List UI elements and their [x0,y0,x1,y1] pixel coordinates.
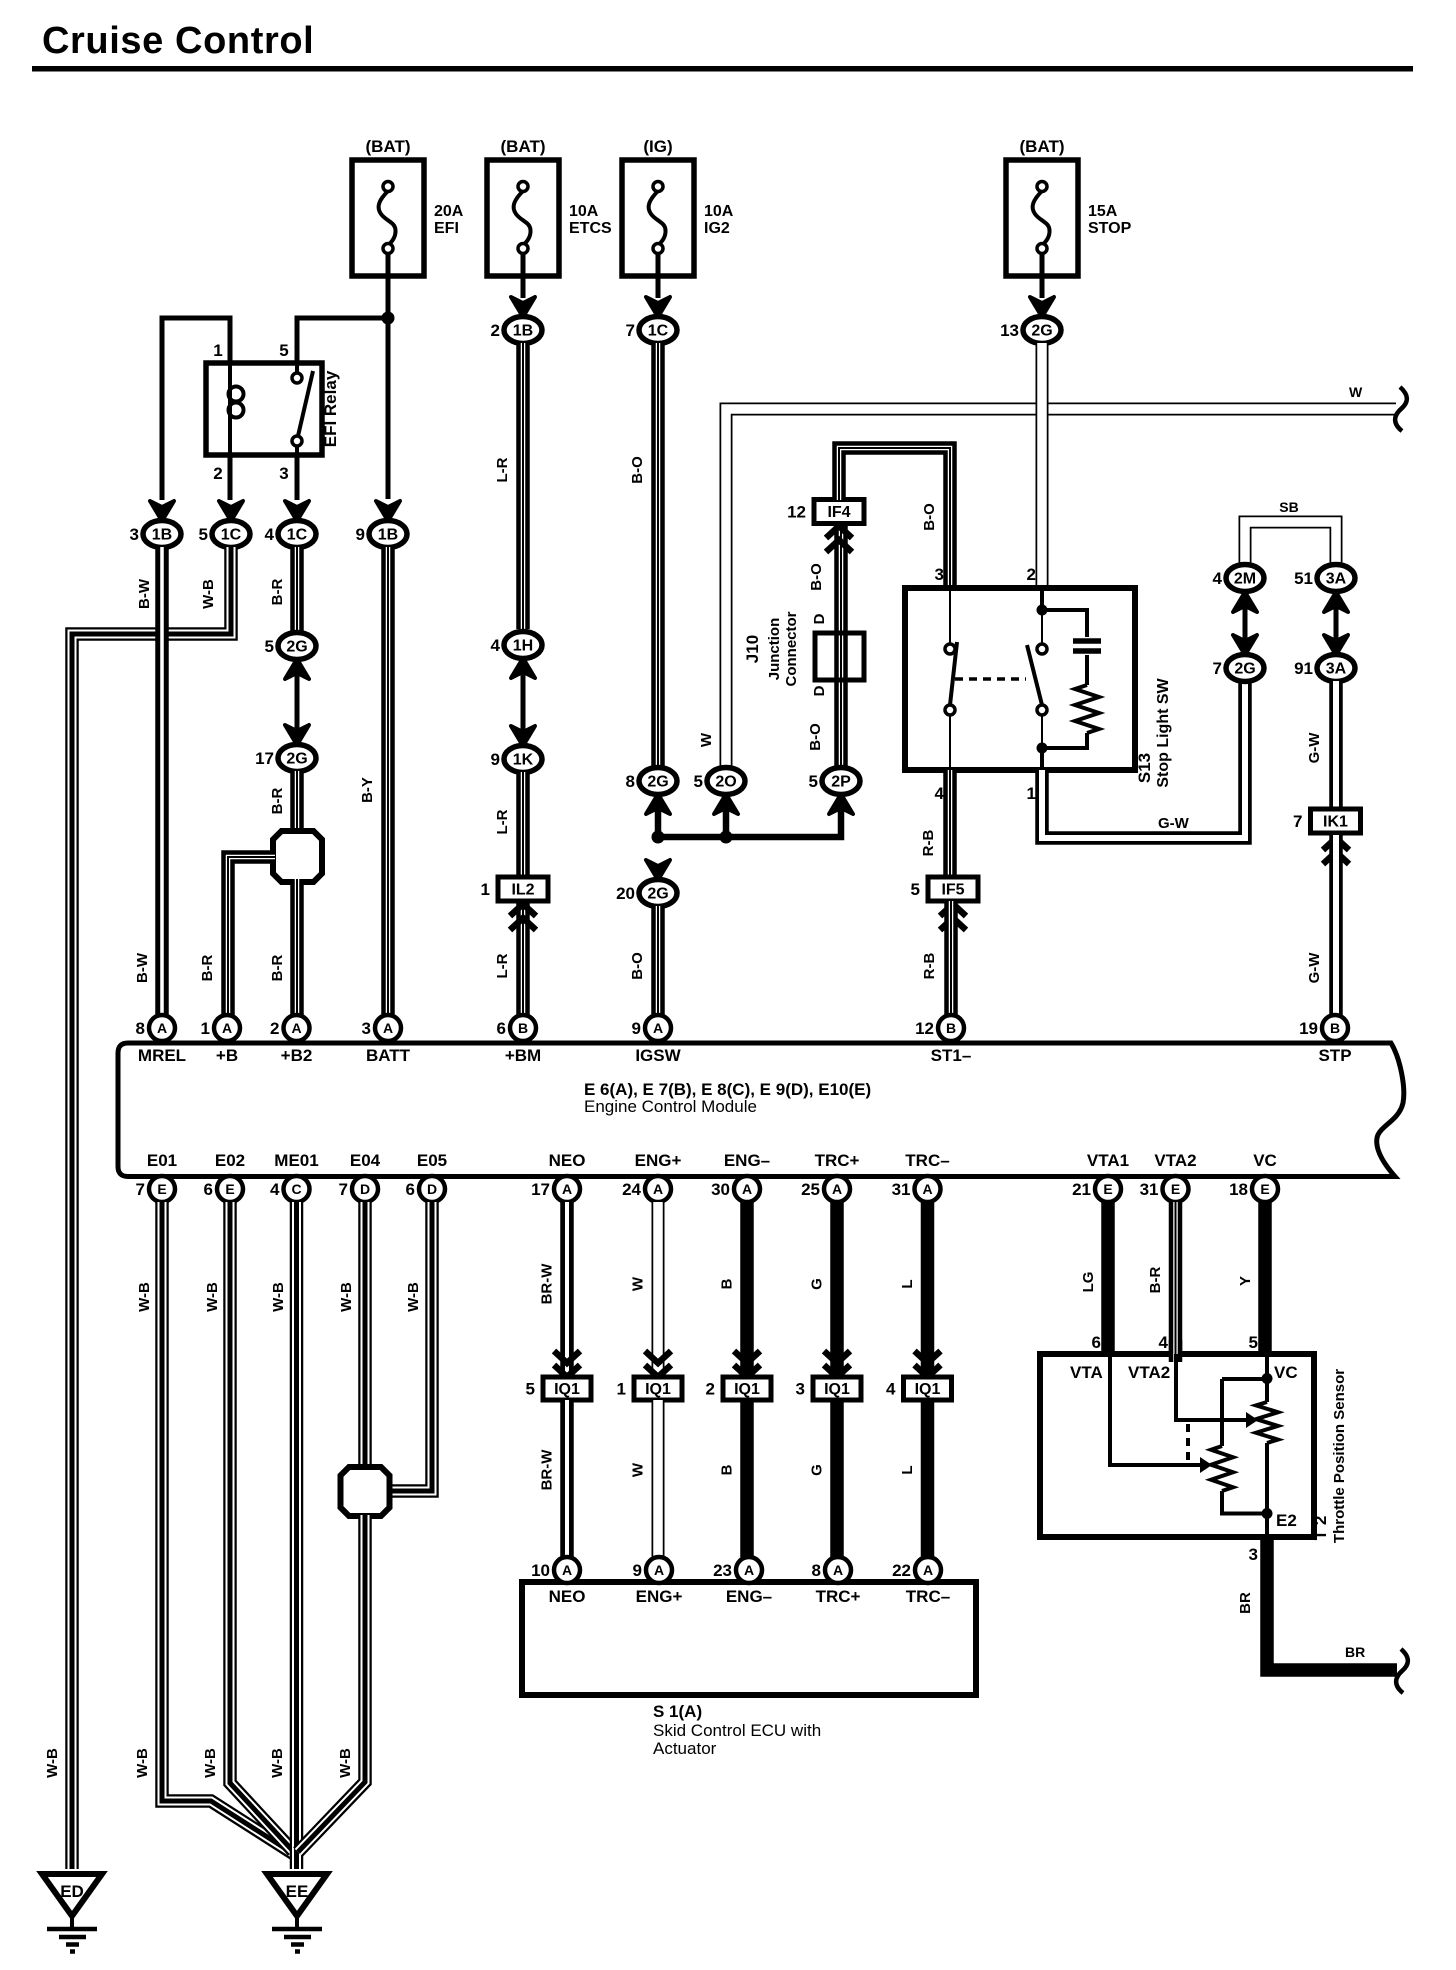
junction EFI rail [382,312,395,325]
connector IQ1 [904,1377,952,1400]
ECM pin 1 +B [214,1015,240,1041]
Skid ECU pin 23 ENG&#8211; [736,1557,762,1583]
connector IQ1 [723,1377,771,1400]
ground EE [267,1874,327,1916]
arrow into 8(2G) [646,794,670,814]
ECM pin 12 ST1&#8211; [938,1015,964,1041]
svg-text:13: 13 [1000,321,1019,340]
wire W-B E05 to octagon [390,1202,432,1491]
svg-text:D: D [360,1181,370,1197]
connector IF4 [814,500,864,524]
capacitor in S13 [1042,610,1087,637]
svg-text:G-W: G-W [1306,952,1323,984]
arrow into 5(2G) [285,659,309,679]
svg-text:6: 6 [497,1019,506,1038]
svg-text:5: 5 [809,772,818,791]
svg-text:D: D [427,1181,437,1197]
svg-text:G: G [809,1464,826,1476]
svg-text:31: 31 [1140,1180,1159,1199]
wire R-B IF5 to ST1- [944,901,958,1015]
arrow into 5(1C) [219,501,243,521]
wire L upper [921,1202,935,1374]
svg-text:1C: 1C [287,527,308,544]
svg-text:VC: VC [1253,1151,1277,1170]
connector 7(2G) [1226,655,1264,682]
connector 7(1C) [639,317,677,344]
connector 4(1H) [504,632,542,659]
ECM pin 9 IGSW [645,1015,671,1041]
svg-text:1B: 1B [513,323,533,340]
svg-text:T 2: T 2 [1311,1516,1330,1541]
ECM pin 18 VC [1252,1176,1278,1202]
svg-text:1C: 1C [648,323,669,340]
svg-text:Actuator: Actuator [653,1739,717,1758]
Skid ECU pin 22 TRC&#8211; [915,1557,941,1583]
svg-text:VTA2: VTA2 [1128,1363,1170,1382]
wiper VTA2 [1176,1354,1246,1420]
svg-text:5: 5 [279,341,288,360]
svg-text:5: 5 [526,1380,535,1399]
fuse 20A EFI [352,160,424,276]
svg-text:S 1(A): S 1(A) [653,1702,702,1721]
svg-text:TRC–: TRC– [905,1151,949,1170]
svg-text:A: A [742,1181,752,1197]
ECM pin 3 BATT [375,1015,401,1041]
svg-text:E: E [1260,1181,1269,1197]
ECM pin 2 +B2 [284,1015,310,1041]
svg-text:D: D [811,613,828,624]
wire B lower [740,1400,754,1557]
Skid ECU pin 10 NEO [554,1557,580,1583]
svg-text:7: 7 [1293,812,1302,831]
svg-text:5: 5 [265,637,274,656]
connector 2(1B) [504,317,542,344]
svg-text:2: 2 [491,321,500,340]
break squiggle W [1395,387,1407,431]
wire L-R 2(1B) to 4(1H) [516,343,530,629]
wire W-B E01 to EE [162,1202,294,1854]
svg-text:W-B: W-B [134,1748,151,1778]
svg-text:4: 4 [265,525,275,544]
svg-text:EE: EE [286,1882,309,1901]
arrow into 4(1H) [511,658,535,678]
wire SB bridge [1245,522,1336,568]
chevrons into IQ1 [734,1351,760,1377]
wire W upper [652,1202,665,1374]
svg-text:2: 2 [706,1380,715,1399]
wire W 13(2G) to S13 pin2 [1036,343,1049,600]
svg-text:A: A [833,1562,843,1578]
svg-text:B-O: B-O [807,723,824,751]
svg-text:B-R: B-R [269,955,286,982]
arrow into 4(1C) [285,501,309,521]
svg-text:A: A [654,1562,664,1578]
svg-text:IQ1: IQ1 [645,1381,671,1398]
ECM pin 4 ME01 [284,1176,310,1202]
svg-text:9: 9 [491,750,500,769]
svg-text:3: 3 [1249,1545,1258,1564]
wire L-R 9(1K) to IL2 [516,772,530,877]
svg-text:IL2: IL2 [511,882,534,899]
svg-text:6: 6 [204,1180,213,1199]
ECM pin 31 TRC&#8211; [915,1176,941,1202]
svg-text:1K: 1K [513,752,534,769]
svg-text:2G: 2G [1234,661,1255,678]
connector 5(2P) [822,768,860,795]
svg-text:+B2: +B2 [281,1046,313,1065]
svg-text:7: 7 [1213,659,1222,678]
connector 51(3A) [1317,565,1355,592]
wire B-R crossing TPS edge [1169,1340,1183,1362]
wire W lower [652,1400,665,1557]
svg-text:C: C [291,1181,301,1197]
svg-text:EFI: EFI [434,220,459,237]
svg-text:W-B: W-B [44,1748,61,1778]
svg-text:ST1–: ST1– [931,1046,972,1065]
arrow into 3(1B) [150,501,174,521]
svg-text:3A: 3A [1326,571,1347,588]
wire G upper [830,1202,844,1374]
svg-text:1: 1 [617,1380,626,1399]
svg-text:Y: Y [1237,1276,1254,1286]
chevrons into IQ1 [824,1351,850,1377]
svg-text:22: 22 [892,1561,911,1580]
svg-text:4: 4 [935,784,945,803]
svg-text:3: 3 [130,525,139,544]
ECM pin 19 STP [1322,1015,1348,1041]
wire B-O 7(1C) to 8(2G) [651,343,665,768]
svg-text:20: 20 [616,884,635,903]
arrow into 91(3A) [1324,635,1348,655]
svg-text:1C: 1C [221,527,242,544]
ECU S1(A) Skid Control ECU with Actuator [522,1582,976,1695]
connector 5(2G) [278,633,316,660]
svg-text:W: W [630,1276,647,1291]
svg-text:21: 21 [1072,1180,1091,1199]
svg-text:B: B [719,1278,736,1289]
svg-text:23: 23 [713,1561,732,1580]
svg-text:TRC–: TRC– [906,1587,950,1606]
svg-text:ENG–: ENG– [724,1151,770,1170]
wire Y VC [1258,1202,1272,1358]
svg-text:L: L [899,1465,916,1474]
wire W-B E02 to EE [230,1202,293,1851]
ECM pin 31 VTA2 [1163,1176,1189,1202]
svg-text:W-B: W-B [136,1282,153,1312]
fuse 10A ETCS [487,160,559,276]
svg-text:1B: 1B [378,527,398,544]
switch S13 Stop Light SW [905,588,1135,770]
svg-text:E: E [1171,1181,1180,1197]
ECM pin 7 E04 [352,1176,378,1202]
svg-text:ME01: ME01 [274,1151,318,1170]
svg-text:B: B [719,1464,736,1475]
Skid ECU pin 8 TRC+ [825,1557,851,1583]
connector IL2 [498,877,548,901]
svg-text:12: 12 [915,1019,934,1038]
svg-text:B: B [518,1020,528,1036]
svg-text:ETCS: ETCS [569,220,612,237]
svg-text:20A: 20A [434,203,464,220]
ECM pin 25 TRC+ [824,1176,850,1202]
wire junction to 5(2O) [723,794,730,837]
svg-text:17: 17 [255,749,274,768]
svg-text:EFI Relay: EFI Relay [321,370,340,447]
svg-text:9: 9 [632,1019,641,1038]
junction dots [652,831,665,844]
svg-text:E05: E05 [417,1151,447,1170]
wire between 51(3A) and 91(3A) [1334,600,1339,650]
wire B-O 5(2P) to IF4 via J10 [834,523,848,768]
svg-text:30: 30 [711,1180,730,1199]
svg-text:B-W: B-W [134,952,151,983]
svg-text:NEO: NEO [549,1151,586,1170]
svg-text:E01: E01 [147,1151,177,1170]
svg-text:10A: 10A [704,203,734,220]
svg-text:ENG+: ENG+ [635,1151,682,1170]
svg-text:2G: 2G [286,639,307,656]
connector 3(1B) [143,521,181,548]
ECM pin 30 ENG&#8211; [734,1176,760,1202]
connector 9(1B) [369,521,407,548]
svg-text:W-B: W-B [270,1282,287,1312]
svg-text:E04: E04 [350,1151,381,1170]
wire junction to 5(2P) [658,794,841,837]
svg-text:Engine Control Module: Engine Control Module [584,1097,757,1116]
svg-text:2: 2 [1027,565,1036,584]
svg-text:8: 8 [626,772,635,791]
svg-text:W-B: W-B [338,1282,355,1312]
junction connector J10 [815,633,864,680]
connector 17(2G) [278,745,316,772]
wire LG VTA1 [1101,1202,1115,1358]
svg-text:SB: SB [1279,499,1298,515]
svg-text:B-W: B-W [136,578,153,609]
svg-text:4: 4 [270,1180,280,1199]
svg-text:2O: 2O [715,774,736,791]
arrow into 9(1B) [376,501,400,521]
svg-text:G: G [809,1278,826,1290]
svg-text:91: 91 [1294,659,1313,678]
wire W-B E04 to octagon [358,1202,372,1467]
svg-text:A: A [222,1020,232,1036]
wire G-W IK1 to STP [1329,835,1343,1015]
chevrons into IQ1 [915,1351,941,1377]
svg-text:E2: E2 [1276,1511,1297,1530]
svg-text:VTA1: VTA1 [1087,1151,1129,1170]
svg-text:A: A [832,1181,842,1197]
wire EFI fuse to 1B and relay rail [386,253,391,499]
wire between 1H and 1K [521,658,526,746]
svg-text:4: 4 [491,636,501,655]
svg-text:B-R: B-R [269,579,286,606]
wire between 5(2G) and 17(2G) [295,659,300,745]
svg-text:TRC+: TRC+ [815,1151,860,1170]
svg-text:A: A [653,1181,663,1197]
ECM pin 24 ENG+ [645,1176,671,1202]
svg-text:7: 7 [136,1180,145,1199]
svg-text:B-R: B-R [199,955,216,982]
svg-text:4: 4 [1213,569,1223,588]
svg-text:B-Y: B-Y [359,777,376,803]
svg-text:A: A [291,1020,301,1036]
wire B-R 17(2G) to junction [290,771,304,832]
wiper VTA [1110,1354,1200,1465]
svg-text:4: 4 [1159,1333,1169,1352]
arrow into 13(2G) [1030,297,1054,317]
svg-text:BR-W: BR-W [539,1449,556,1491]
arrow into 2(1B) [511,297,535,317]
svg-text:W-B: W-B [200,579,217,609]
junction connector octagon 2 [341,1467,390,1516]
svg-text:ED: ED [60,1882,84,1901]
svg-text:A: A [653,1020,663,1036]
chevrons into IQ1 [645,1351,671,1377]
svg-text:W-B: W-B [337,1748,354,1778]
connector 5(2O) [707,768,745,795]
svg-text:15A: 15A [1088,203,1118,220]
svg-text:2G: 2G [286,751,307,768]
svg-text:BATT: BATT [366,1046,411,1065]
svg-text:8: 8 [136,1019,145,1038]
svg-text:51: 51 [1294,569,1313,588]
svg-text:IK1: IK1 [1323,814,1348,831]
svg-text:E: E [1103,1181,1112,1197]
svg-text:4: 4 [886,1380,896,1399]
svg-text:+B: +B [216,1046,238,1065]
svg-text:TRC+: TRC+ [816,1587,861,1606]
wire B-R VTA2 [1169,1202,1183,1358]
wire BR-W upper [560,1202,574,1374]
junction connector octagon [273,831,322,882]
svg-text:1: 1 [213,341,222,360]
ECM pin 6 E05 [419,1176,445,1202]
svg-text:1: 1 [201,1019,210,1038]
svg-text:1: 1 [481,880,490,899]
svg-text:3: 3 [362,1019,371,1038]
connector 9(1K) [504,746,542,773]
svg-text:W-B: W-B [204,1282,221,1312]
svg-text:2: 2 [270,1019,279,1038]
svg-text:STOP: STOP [1088,220,1132,237]
chevrons into IF4 [826,526,852,552]
svg-text:B-O: B-O [808,563,825,591]
wire B-R octagon to +B [228,857,275,1015]
wire G lower [830,1400,844,1557]
svg-text:Throttle Position Sensor: Throttle Position Sensor [1331,1369,1348,1543]
svg-text:W: W [630,1462,647,1477]
svg-text:NEO: NEO [549,1587,586,1606]
svg-text:B-R: B-R [269,788,286,815]
arrow into 7(1C) [646,297,670,317]
svg-text:B: B [946,1020,956,1036]
wire B-W MREL [155,547,169,1015]
svg-text:IG2: IG2 [704,220,730,237]
ECU E6-E10 Engine Control Module [118,1043,1404,1177]
connector 4(2M) [1226,565,1264,592]
svg-text:VC: VC [1274,1363,1298,1382]
wire W from 5(2O) to right edge [726,409,1396,770]
svg-text:Skid Control ECU with: Skid Control ECU with [653,1721,821,1740]
svg-text:3: 3 [796,1380,805,1399]
svg-text:Junction: Junction [766,618,783,681]
svg-text:W: W [698,732,715,747]
svg-text:S13: S13 [1135,753,1154,783]
connector 5(1C) [212,521,250,548]
svg-text:2M: 2M [1234,571,1256,588]
svg-text:10A: 10A [569,203,599,220]
svg-text:W-B: W-B [202,1748,219,1778]
svg-text:IF4: IF4 [827,504,850,521]
svg-text:31: 31 [892,1180,911,1199]
resistor in S13 [1075,685,1099,733]
svg-text:Stop Light SW: Stop Light SW [1155,677,1172,787]
ECM pin 7 E01 [149,1176,175,1202]
svg-text:5: 5 [199,525,208,544]
svg-text:2G: 2G [647,774,668,791]
svg-text:VTA2: VTA2 [1154,1151,1196,1170]
svg-text:B: B [1330,1020,1340,1036]
svg-text:1: 1 [1027,784,1036,803]
wire relay pin5 to EFI fuse rail [297,318,388,363]
connector IF5 [928,877,978,901]
ground ED [42,1874,102,1916]
svg-text:R-B: R-B [921,953,938,980]
svg-text:1B: 1B [152,527,172,544]
svg-text:A: A [923,1562,933,1578]
svg-text:12: 12 [787,503,806,522]
svg-text:IQ1: IQ1 [554,1381,580,1398]
arrow into 51(3A) [1324,592,1348,612]
svg-text:17: 17 [531,1180,550,1199]
svg-text:5: 5 [694,772,703,791]
wire G-W 91(3A) to IK1 [1329,681,1343,807]
svg-text:IGSW: IGSW [635,1046,681,1065]
svg-text:3: 3 [279,464,288,483]
svg-text:ENG–: ENG– [726,1587,772,1606]
svg-text:R-B: R-B [920,830,937,857]
svg-text:J10: J10 [743,635,762,663]
chevrons into IL2 [510,904,536,930]
arrow into 7(2G) [1233,635,1257,655]
svg-text:A: A [922,1181,932,1197]
ECM pin 21 VTA1 [1095,1176,1121,1202]
svg-text:7: 7 [339,1180,348,1199]
connector 20(2G) [639,880,677,907]
svg-text:E02: E02 [215,1151,245,1170]
svg-text:7: 7 [626,321,635,340]
wire W-B octagon to EE [298,1515,365,1852]
connector IQ1 [634,1377,682,1400]
svg-text:G-W: G-W [1158,815,1190,832]
svg-text:2G: 2G [1031,323,1052,340]
sensor T2 Throttle Position Sensor [1040,1354,1314,1537]
wire between 4(2M) and 7(2G) [1243,600,1248,650]
svg-text:BR-W: BR-W [539,1263,556,1305]
svg-text:ENG+: ENG+ [636,1587,683,1606]
connector 4(1C) [278,521,316,548]
connector 13(2G) [1023,317,1061,344]
svg-text:9: 9 [356,525,365,544]
svg-text:(IG): (IG) [643,137,672,156]
ECM pin 6 +BM [510,1015,536,1041]
svg-text:W-B: W-B [269,1748,286,1778]
fuse 15A STOP [1006,160,1078,276]
svg-text:B-R: B-R [1147,1267,1164,1294]
ECM pin 6 E02 [217,1176,243,1202]
svg-text:25: 25 [801,1180,820,1199]
svg-text:L-R: L-R [494,809,511,834]
